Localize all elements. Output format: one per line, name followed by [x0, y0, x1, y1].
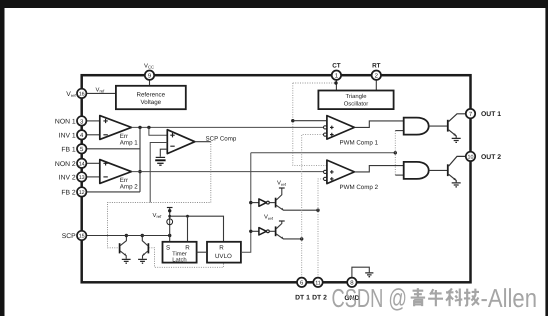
svg-text:SCP: SCP: [62, 233, 76, 240]
wire: Vcc pin 9 to Reference Voltage box: [149, 80, 151, 86]
svg-text:Amp 1: Amp 1: [120, 139, 138, 146]
wire: Vref source chain: [169, 208, 171, 242]
op-amp Err Amp 1: [100, 116, 132, 140]
wire: pin 13 to Err Amp 2: [86, 176, 99, 178]
transistor Q4: [275, 226, 277, 236]
wire: pin 2 (RT) down to oscillator: [375, 80, 377, 91]
transistor Q6 (SCP mirror right): [147, 243, 149, 253]
node: [141, 234, 144, 237]
pin 12: [77, 187, 86, 196]
pin 6: [297, 278, 306, 287]
svg-text:11: 11: [315, 281, 321, 287]
svg-text:OUT 1: OUT 1: [481, 111, 501, 118]
glyph ji: [464, 289, 479, 306]
wire: triangle-wave vertical bus: [293, 83, 327, 165]
transistor Q2: [447, 164, 449, 176]
ground: [452, 138, 461, 142]
wire: pin 8 internal ground: [352, 267, 369, 277]
wire: to SCP comp + input: [149, 127, 167, 135]
svg-text:14: 14: [79, 162, 85, 168]
op-amp Err Amp 2: [100, 160, 132, 184]
node on DT1 bus: [300, 237, 303, 240]
wire: DT2 bus from pin 11: [318, 179, 323, 278]
svg-text:UVLO: UVLO: [215, 253, 232, 260]
node: [125, 234, 128, 237]
svg-text:Reference: Reference: [137, 91, 166, 98]
AND gate 2: [404, 162, 429, 179]
wire: pin 5 FB1: [86, 148, 140, 150]
svg-text:13: 13: [79, 175, 85, 181]
wire: SCP comp output loop: [195, 141, 211, 143]
glyph ke: [446, 288, 462, 306]
svg-text:RT: RT: [372, 62, 381, 69]
node: [186, 215, 189, 218]
ground at pin 8: [365, 273, 373, 277]
svg-text:INV 1: INV 1: [59, 132, 76, 139]
ground: [122, 259, 131, 263]
svg-text:DT 1: DT 1: [295, 294, 310, 301]
svg-text:10: 10: [468, 155, 474, 161]
wire: pin 14 to Err Amp 2: [86, 162, 99, 164]
glyph qing: [411, 288, 425, 306]
inverter U4: [251, 230, 259, 232]
wire: reset line to latch R and UVLO R: [170, 216, 224, 242]
pin 1: [332, 71, 341, 80]
transistor Q3: [275, 198, 277, 208]
wire: latch R input: [187, 216, 189, 242]
wire: Q6 base return under latch: [149, 248, 223, 267]
block: Reference Voltage: [116, 86, 186, 109]
wire: into AND 2: [395, 174, 403, 176]
pin 8: [347, 278, 356, 287]
pin 7: [466, 109, 475, 118]
pin 4: [77, 130, 86, 139]
wire: pin 1 (CT) down to oscillator: [335, 80, 337, 91]
svg-text:DT 2: DT 2: [312, 294, 327, 301]
svg-text:R: R: [219, 244, 224, 251]
svg-text:Latch: Latch: [172, 256, 186, 263]
node: [138, 126, 141, 129]
svg-text:Voltage: Voltage: [140, 99, 161, 106]
svg-text:R: R: [185, 244, 190, 251]
svg-text:CT: CT: [332, 62, 341, 69]
pin 3: [77, 116, 86, 125]
node: [168, 234, 171, 237]
wire: SCP comp minus input from below: [150, 143, 167, 203]
svg-text:16: 16: [79, 92, 85, 98]
node: [394, 151, 397, 154]
svg-text:Amp 2: Amp 2: [120, 184, 138, 191]
comparator PWM Comp 2: [327, 160, 355, 184]
transistor Q5 (SCP mirror left): [119, 243, 121, 253]
ground below SCP cap: [157, 163, 163, 165]
watermark CSDN: [332, 283, 538, 313]
pin 15: [77, 231, 86, 240]
wire: pin 3 to Err Amp 1: [86, 120, 99, 122]
node: [168, 209, 171, 212]
pin 10: [466, 152, 475, 161]
wire: gate bus vertical: [394, 131, 396, 176]
node on DT2 bus: [316, 209, 319, 212]
pin 11: [313, 278, 322, 287]
capacitor on SCP comp: [156, 156, 165, 158]
transistor Q1: [447, 120, 449, 132]
IC boundary rails: [82, 75, 471, 282]
wire: into AND 1: [395, 130, 403, 132]
block: Timer Latch: [163, 242, 197, 263]
block: UVLO: [207, 242, 241, 263]
svg-text:OUT 2: OUT 2: [481, 154, 501, 161]
pin 16: [77, 89, 86, 98]
pin 2: [372, 71, 381, 80]
node on CT wire: [334, 81, 337, 84]
pin 14: [77, 159, 86, 168]
node: [168, 215, 171, 218]
svg-text:12: 12: [79, 190, 85, 196]
wire: pin 4 to Err Amp 1: [86, 134, 99, 136]
svg-text:FB 2: FB 2: [61, 189, 76, 196]
ground: [452, 183, 461, 187]
node: [249, 201, 252, 204]
block: Triangle Oscillator: [318, 91, 393, 110]
wire: UVLO output riser: [241, 153, 251, 252]
left black bar: [0, 8, 5, 316]
wire: Err Amp 2 output to PWM comp 2: [131, 171, 323, 173]
wire: latch to UVLO: [197, 251, 207, 253]
inverter U3: [251, 202, 259, 204]
top black bar: [0, 0, 548, 8]
right black edge line: [545, 8, 548, 316]
node on err amp 2 output: [138, 170, 141, 173]
wire: AND 1 to Q1: [429, 125, 447, 127]
comparator SCP Comp: [167, 130, 195, 154]
svg-text:INV 2: INV 2: [59, 174, 76, 181]
ground: [138, 259, 147, 263]
wire: feedback bus FB1/FB2 vertical: [139, 127, 141, 191]
wire: SCP cap stub: [160, 149, 167, 157]
node: triangle wave to PWM comp 1: [291, 119, 294, 122]
wire: gating line to AND gates: [251, 152, 395, 154]
wire: DT1 bus from pin 6: [302, 135, 324, 278]
node: [147, 126, 150, 129]
AND gate 1: [404, 118, 429, 135]
node: [249, 230, 252, 233]
svg-text:PWM Comp 1: PWM Comp 1: [340, 140, 379, 147]
comparator PWM Comp 1: [327, 116, 355, 140]
wire: PWM comp 1 output to AND 1: [354, 121, 403, 128]
wire: pin 16 to Reference Voltage box: [86, 92, 116, 94]
wire: triangle wave into PWM comp 1: [293, 120, 327, 122]
svg-text:Triangle: Triangle: [345, 93, 367, 100]
pin 13: [77, 172, 86, 181]
svg-text:S: S: [166, 244, 170, 251]
current source S1: [167, 219, 173, 225]
watermark chinese glyphs: [411, 288, 479, 306]
wire: pin 15 SCP line: [86, 235, 169, 237]
pin 5: [77, 144, 86, 153]
svg-text:15: 15: [79, 234, 85, 240]
wire: pin 12 FB2: [86, 191, 140, 193]
svg-text:-Allen: -Allen: [481, 283, 538, 313]
svg-text:NON 2: NON 2: [55, 161, 76, 168]
glyph niu: [428, 289, 443, 306]
svg-text:FB 1: FB 1: [61, 146, 76, 153]
svg-text:NON 1: NON 1: [55, 118, 76, 125]
svg-text:Oscillator: Oscillator: [344, 101, 369, 108]
svg-text:Timer: Timer: [172, 250, 187, 257]
svg-text:PWM Comp 2: PWM Comp 2: [340, 184, 379, 191]
svg-text:CSDN @: CSDN @: [332, 283, 408, 313]
wire: PWM comp 2 output to AND 2: [354, 166, 403, 172]
pin 9: [145, 71, 154, 80]
wire: Err Amp 1 output to PWM comp 1: [131, 126, 323, 128]
wire: oscillator tap to pin1 net: [293, 82, 336, 84]
wire: AND 2 to Q2: [429, 169, 447, 171]
